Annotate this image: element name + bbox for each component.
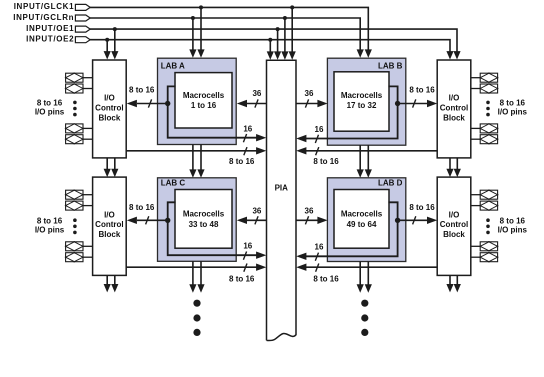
svg-text:Control: Control bbox=[440, 220, 468, 229]
junction dot LAB D feedback bbox=[395, 218, 400, 223]
I/O pin top-left 3 bbox=[65, 124, 93, 134]
svg-text:1 to 16: 1 to 16 bbox=[191, 101, 217, 110]
wire drop OE2 to PIA bbox=[267, 40, 274, 60]
I/O pin bottom-left 3 bbox=[65, 241, 93, 251]
I/O control block bottom-left bbox=[93, 177, 127, 275]
I/O pin bottom-left 1 bbox=[65, 190, 93, 200]
svg-text:I/O: I/O bbox=[449, 94, 460, 103]
LAB C block bbox=[158, 178, 237, 261]
svg-text:16: 16 bbox=[243, 241, 252, 250]
svg-text:8 to 16: 8 to 16 bbox=[129, 203, 155, 212]
I/O pin top-left 2 bbox=[65, 84, 93, 94]
svg-text:Control: Control bbox=[95, 104, 123, 113]
wire right I/O to PIA (8 to 16) bbox=[296, 264, 437, 284]
wire pair LAB A to LAB C bbox=[189, 145, 204, 178]
wire drop OE2 to top-left I/O bbox=[104, 40, 111, 60]
svg-text:8 to 16: 8 to 16 bbox=[129, 86, 155, 95]
svg-text:Block: Block bbox=[99, 114, 121, 123]
svg-text:Macrocells: Macrocells bbox=[341, 210, 383, 219]
svg-text:LAB B: LAB B bbox=[378, 62, 403, 71]
svg-text:I/O: I/O bbox=[104, 210, 115, 219]
arrow pair below LAB D bbox=[357, 262, 372, 293]
svg-text:8 to 16: 8 to 16 bbox=[409, 203, 435, 212]
input pin INPUT/OE2 bbox=[26, 35, 90, 44]
arrow LAB B to right I/O (8 to 16) bbox=[398, 86, 438, 108]
LAB A block bbox=[158, 58, 237, 144]
svg-text:Block: Block bbox=[443, 114, 465, 123]
label 8 to 16 I/O pins bottom-left bbox=[35, 217, 65, 235]
svg-text:16: 16 bbox=[315, 125, 324, 134]
LAB A macrocell box bbox=[175, 73, 232, 128]
wire pair top-right I/O to bottom-right I/O bbox=[446, 158, 461, 177]
arrow PIA to LAB C (36) bbox=[237, 207, 267, 225]
wire drop GCLRn to PIA bbox=[281, 18, 288, 60]
wire LAB A feedback to PIA (16) bbox=[168, 86, 267, 141]
input pin INPUT/GCLRn bbox=[13, 13, 90, 22]
svg-text:LAB D: LAB D bbox=[378, 179, 403, 188]
svg-text:8 to 16: 8 to 16 bbox=[500, 217, 526, 226]
svg-text:LAB C: LAB C bbox=[161, 179, 186, 188]
svg-text:8 to 16: 8 to 16 bbox=[229, 157, 255, 166]
svg-text:I/O pins: I/O pins bbox=[498, 225, 528, 234]
wire drop OE1 to top-left I/O bbox=[111, 29, 118, 59]
ellipsis dots top-left pins bbox=[73, 101, 77, 117]
arrow PIA to LAB D (36) bbox=[296, 207, 328, 225]
svg-text:INPUT/OE1: INPUT/OE1 bbox=[26, 24, 74, 33]
wire drop GCLRn to LAB A bbox=[189, 18, 196, 58]
LAB C macrocell box bbox=[175, 190, 232, 249]
svg-text:16: 16 bbox=[315, 242, 324, 251]
junction dot GCLRn/LAB A bbox=[191, 16, 195, 20]
svg-text:LAB A: LAB A bbox=[161, 62, 185, 71]
junction dot OE1/left I/O bbox=[113, 27, 117, 31]
svg-text:Macrocells: Macrocells bbox=[183, 91, 225, 100]
svg-text:PIA: PIA bbox=[275, 183, 289, 192]
arrow pair below bottom-right I/O bbox=[446, 275, 461, 292]
label 8 to 16 I/O pins top-left bbox=[35, 99, 65, 117]
junction dot GLCK1/LAB A bbox=[199, 5, 203, 9]
continuation dots below LAB D bbox=[361, 300, 368, 336]
wire LAB D feedback to PIA (16) bbox=[296, 202, 397, 260]
wire GCLRn horizontal with corner drop to LAB B bbox=[90, 18, 364, 58]
svg-text:8 to 16: 8 to 16 bbox=[313, 275, 339, 284]
svg-text:8 to 16: 8 to 16 bbox=[37, 217, 63, 226]
svg-text:33 to 48: 33 to 48 bbox=[189, 220, 219, 229]
I/O pin bottom-right 2 bbox=[471, 201, 499, 211]
wire drop OE1 to PIA bbox=[274, 29, 281, 60]
PIA block bbox=[267, 60, 297, 340]
svg-text:INPUT/OE2: INPUT/OE2 bbox=[26, 35, 74, 44]
LAB D macrocell box bbox=[334, 190, 389, 249]
slash 16 LAB C output bbox=[243, 252, 246, 260]
arrow LAB D to right I/O (8 to 16) bbox=[398, 203, 438, 225]
I/O pin top-right 2 bbox=[471, 84, 499, 94]
svg-text:16: 16 bbox=[243, 124, 252, 133]
ellipsis dots top-right pins bbox=[486, 101, 490, 117]
arrow PIA to LAB B (36) bbox=[296, 89, 328, 108]
arrow LAB C to left I/O (8 to 16) bbox=[127, 203, 168, 225]
junction dot GCLRn/PIA bbox=[283, 16, 287, 20]
continuation dots below LAB C bbox=[193, 300, 200, 336]
svg-text:8 to 16: 8 to 16 bbox=[500, 99, 526, 108]
junction dot LAB A feedback bbox=[165, 101, 170, 106]
svg-text:8 to 16: 8 to 16 bbox=[313, 157, 339, 166]
I/O control block top-right bbox=[437, 60, 471, 158]
junction dot OE2/PIA bbox=[268, 38, 272, 42]
junction dot OE2/left I/O bbox=[105, 38, 109, 42]
wire pair top-left I/O to bottom-left I/O bbox=[104, 158, 119, 177]
LAB B macrocell box bbox=[334, 72, 389, 131]
svg-text:36: 36 bbox=[305, 89, 314, 98]
wire LAB C feedback to PIA (16) bbox=[168, 202, 267, 259]
ellipsis dots bottom-right pins bbox=[486, 218, 490, 234]
wire drop GLCK1 to PIA bbox=[289, 7, 296, 59]
I/O pin bottom-right 1 bbox=[471, 190, 499, 200]
arrow PIA to LAB A (36) bbox=[237, 89, 267, 108]
wire OE2 horizontal with corner drop to top-right I/O bbox=[90, 40, 454, 60]
svg-text:Macrocells: Macrocells bbox=[183, 210, 225, 219]
svg-text:36: 36 bbox=[252, 89, 261, 98]
wire LAB B feedback to PIA (16) bbox=[296, 86, 397, 142]
I/O pin top-left 1 bbox=[65, 73, 93, 83]
svg-text:Block: Block bbox=[443, 230, 465, 239]
junction dot GLCK1/PIA bbox=[290, 5, 294, 9]
LAB B block bbox=[327, 58, 405, 145]
I/O pin bottom-left 2 bbox=[65, 201, 93, 211]
wire left I/O to PIA (8 to 16) bbox=[126, 264, 266, 284]
svg-text:INPUT/GLCK1: INPUT/GLCK1 bbox=[14, 2, 75, 11]
arrow LAB A to left I/O (8 to 16) bbox=[127, 86, 168, 108]
svg-text:INPUT/GCLRn: INPUT/GCLRn bbox=[13, 13, 74, 22]
I/O pin top-left 4 bbox=[65, 134, 93, 144]
junction dot OE1/PIA bbox=[276, 27, 280, 31]
svg-text:8 to 16: 8 to 16 bbox=[409, 86, 435, 95]
svg-text:Macrocells: Macrocells bbox=[341, 91, 383, 100]
slash 16 LAB A output bbox=[243, 134, 246, 142]
LAB D block bbox=[327, 178, 405, 262]
wire GLCK1 horizontal with corner drop to LAB B bbox=[90, 7, 372, 57]
svg-text:I/O pins: I/O pins bbox=[498, 108, 528, 117]
I/O control block bottom-right bbox=[437, 177, 471, 275]
I/O pin bottom-left 4 bbox=[65, 252, 93, 262]
wire drop GLCK1 to LAB A bbox=[197, 7, 204, 57]
slash 16 LAB D output bbox=[315, 253, 318, 261]
junction dot LAB C feedback bbox=[165, 218, 170, 223]
svg-text:17 to 32: 17 to 32 bbox=[347, 101, 377, 110]
svg-text:I/O pins: I/O pins bbox=[35, 108, 65, 117]
svg-text:36: 36 bbox=[305, 207, 314, 216]
wire left I/O to PIA (8 to 16) bbox=[126, 147, 266, 166]
svg-text:8 to 16: 8 to 16 bbox=[229, 275, 255, 284]
I/O pin bottom-right 4 bbox=[471, 252, 499, 262]
ellipsis dots bottom-left pins bbox=[73, 218, 77, 234]
junction dot LAB B feedback bbox=[395, 101, 400, 106]
label 8 to 16 I/O pins top-right bbox=[498, 99, 528, 117]
I/O control block top-left bbox=[93, 60, 127, 158]
svg-text:Block: Block bbox=[99, 230, 121, 239]
input pin INPUT/GLCK1 bbox=[14, 2, 91, 11]
svg-text:I/O pins: I/O pins bbox=[35, 225, 65, 234]
wire right I/O to PIA (8 to 16) bbox=[296, 147, 437, 166]
slash 16 LAB B output bbox=[315, 135, 318, 143]
svg-text:49 to 64: 49 to 64 bbox=[347, 220, 377, 229]
svg-text:I/O: I/O bbox=[449, 210, 460, 219]
svg-text:8 to 16: 8 to 16 bbox=[37, 99, 63, 108]
wire pair LAB B to LAB D bbox=[357, 145, 372, 178]
svg-text:36: 36 bbox=[252, 207, 261, 216]
I/O pin top-right 3 bbox=[471, 124, 499, 134]
svg-text:I/O: I/O bbox=[104, 94, 115, 103]
I/O pin bottom-right 3 bbox=[471, 241, 499, 251]
I/O pin top-right 1 bbox=[471, 73, 499, 83]
I/O pin top-right 4 bbox=[471, 134, 499, 144]
arrow pair below LAB C bbox=[189, 261, 204, 292]
arrow pair below bottom-left I/O bbox=[104, 275, 119, 292]
wire OE1 horizontal with corner drop to top-right I/O bbox=[90, 29, 461, 59]
input pin INPUT/OE1 bbox=[26, 24, 90, 33]
svg-text:Control: Control bbox=[95, 220, 123, 229]
label 8 to 16 I/O pins bottom-right bbox=[498, 217, 528, 235]
svg-text:Control: Control bbox=[440, 104, 468, 113]
